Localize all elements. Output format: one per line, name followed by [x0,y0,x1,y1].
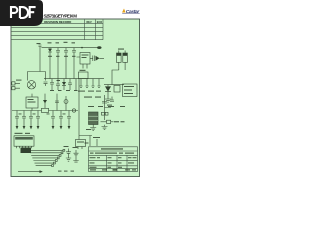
svg-text:REV: REV [87,21,92,24]
svg-text:Castar: Castar [126,9,141,15]
svg-text:S25731GETYPE IX M: S25731GETYPE IX M [44,13,78,18]
svg-text:REVISION RECORD: REVISION RECORD [44,20,72,24]
svg-text:ECO: ECO [97,21,102,24]
